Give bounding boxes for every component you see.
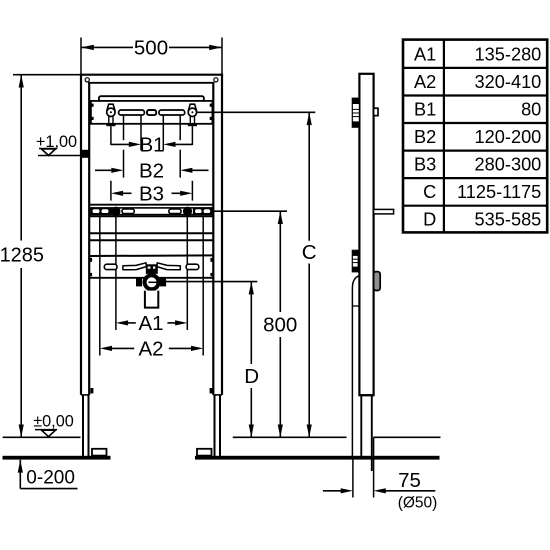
hanger bolt left [106, 104, 115, 126]
svg-text:A1: A1 [414, 44, 436, 64]
corner screw left [85, 78, 89, 82]
A2 extension verticals [99, 217, 101, 356]
slot extension verticals [111, 115, 192, 201]
svg-text:535-585: 535-585 [475, 210, 542, 230]
svg-text:1125-1175: 1125-1175 [457, 182, 541, 202]
side drain pipe curve [352, 276, 359, 460]
side water stub pipe [374, 209, 394, 214]
sink bracket center block [146, 264, 158, 274]
drain inner tick [149, 281, 159, 283]
middle rail bar [91, 208, 212, 215]
upper crossbar top plate [99, 96, 204, 101]
dimension B2 [95, 159, 209, 182]
dimension 500 extension lines [80, 38, 82, 75]
crossbar end ticks [91, 104, 212, 120]
ground line middle [233, 436, 347, 438]
level mark +1,00 [36, 133, 81, 156]
svg-text:500: 500 [134, 36, 168, 59]
svg-text:±0,00: ±0,00 [33, 412, 74, 430]
svg-text:135-280: 135-280 [475, 44, 542, 64]
svg-text:0-200: 0-200 [26, 468, 75, 489]
rail leader line to 800 dim [213, 210, 287, 212]
svg-text:320-410: 320-410 [475, 72, 542, 92]
rail bolt dot left [111, 207, 120, 216]
svg-text:B1: B1 [414, 99, 436, 119]
dimension A1 [116, 312, 187, 335]
svg-text:B2: B2 [139, 159, 164, 182]
wall anchor ticks [89, 258, 92, 262]
dimension table grid [403, 40, 547, 233]
dimension B1 [111, 133, 192, 156]
frame inner top line [88, 82, 214, 84]
frame line below bracket [89, 277, 213, 279]
hanger bolt right [188, 104, 197, 126]
dimension 500 [81, 36, 222, 59]
svg-text:B2: B2 [414, 127, 436, 147]
side leg joint [359, 394, 373, 396]
bolt leader line (C reference) [197, 111, 315, 113]
crossbar slot right [159, 110, 185, 115]
svg-text:75: 75 [398, 469, 421, 492]
leg lock nub right [210, 388, 213, 393]
leg right [214, 395, 216, 457]
dimension 1285 [0, 75, 44, 438]
leg left [82, 395, 84, 457]
svg-text:A1: A1 [138, 312, 163, 335]
svg-text:A2: A2 [138, 337, 163, 360]
svg-text:800: 800 [263, 313, 297, 336]
dimension C [302, 112, 317, 437]
leg joint left [81, 394, 89, 396]
floor slab right [195, 456, 440, 460]
frame cross lines [89, 233, 213, 256]
side pipe tick [352, 305, 359, 307]
1285 top reference line [13, 74, 81, 76]
drain ring [145, 275, 159, 289]
svg-text:C: C [423, 182, 436, 202]
75 extension lines [352, 460, 354, 498]
svg-text:80: 80 [521, 99, 541, 119]
ground line left (±0,00 reference) [3, 436, 81, 438]
side drain bulge [374, 272, 381, 291]
svg-text:1285: 1285 [0, 244, 44, 266]
svg-text:(Ø50): (Ø50) [398, 494, 438, 511]
leg joint right [213, 394, 222, 396]
dimension D [244, 282, 259, 438]
dimension B3 [111, 182, 192, 205]
sink bracket arm left [123, 263, 146, 270]
svg-text:D: D [423, 210, 436, 230]
middle rail top line [89, 204, 213, 206]
dimension 75 [323, 469, 437, 511]
side lower wall bracket [352, 250, 358, 272]
sink bracket outer slot right [186, 264, 199, 269]
side bar [359, 74, 373, 395]
upper crossbar box [91, 101, 212, 124]
foot plate left [92, 449, 107, 456]
A1 extension verticals [115, 217, 117, 331]
svg-text:B1: B1 [139, 133, 164, 156]
svg-text:C: C [302, 241, 317, 264]
svg-text:A2: A2 [414, 72, 436, 92]
drain pipe [145, 291, 158, 308]
crossbar slot center [147, 110, 156, 115]
corner screw right [214, 78, 218, 82]
foot plate right [197, 449, 212, 456]
svg-text:D: D [244, 365, 259, 388]
side hanger bolt nub [374, 108, 378, 115]
crossbar slot left [119, 110, 145, 115]
floor slab left [3, 456, 111, 460]
frame outer top rail [80, 75, 223, 395]
svg-text:B3: B3 [139, 182, 164, 205]
svg-text:280-300: 280-300 [475, 155, 542, 175]
side upper wall bracket [352, 98, 359, 127]
middle rail bottom line [89, 215, 213, 217]
sink bracket outer slot left [104, 264, 117, 269]
drain leader line to D dim [155, 281, 257, 283]
dimension 0-200 [18, 460, 78, 489]
leg lock nub left [91, 388, 94, 393]
svg-text:120-200: 120-200 [475, 127, 542, 147]
side inner leg [360, 395, 362, 457]
wall bracket mark on left rail [81, 150, 89, 158]
dimension table values [414, 44, 541, 229]
svg-text:B3: B3 [414, 155, 436, 175]
level mark ±0,00 [33, 412, 74, 436]
sink bracket arm right [157, 263, 180, 270]
dimension 800 [263, 211, 297, 437]
rail bolt dot right [183, 207, 192, 216]
dimension A2 [100, 337, 203, 360]
ground line right [374, 436, 441, 438]
drain clamp ears [136, 278, 142, 287]
